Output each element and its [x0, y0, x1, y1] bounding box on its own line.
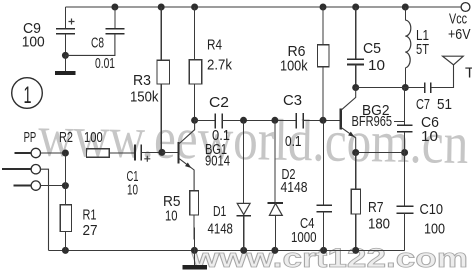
- svg-text:4148: 4148: [281, 179, 308, 196]
- node rail D1: [240, 247, 247, 254]
- diode D2: [268, 120, 284, 250]
- label R2: [59, 129, 73, 146]
- svg-text:150k: 150k: [130, 89, 159, 106]
- label C3: [283, 92, 302, 109]
- svg-text:0.1: 0.1: [285, 133, 302, 150]
- input terminal 3: [14, 181, 66, 190]
- node rail R7: [352, 247, 359, 254]
- svg-text:100k: 100k: [280, 58, 308, 75]
- label 4148 (D1): [208, 220, 233, 237]
- svg-text:R4: R4: [207, 36, 222, 53]
- node circled 1: [12, 78, 43, 109]
- label 27: [83, 222, 98, 239]
- svg-text:9014: 9014: [205, 153, 230, 170]
- label PP: [24, 129, 37, 146]
- svg-text:100: 100: [22, 34, 45, 51]
- svg-text:PP: PP: [24, 129, 37, 146]
- label C5: [363, 40, 381, 57]
- label 51: [437, 96, 452, 113]
- label 2.7k: [207, 57, 232, 74]
- node input1/R2: [62, 150, 69, 157]
- label 10 (C6): [421, 128, 438, 145]
- resistor R5: [190, 191, 199, 251]
- resistor R2: [86, 149, 135, 158]
- svg-text:R7: R7: [368, 199, 384, 216]
- label 1000 (C4): [291, 229, 317, 246]
- label 10 (C5): [368, 57, 385, 74]
- node rail R5/ground: [191, 247, 198, 254]
- label 10 (R5): [165, 208, 178, 225]
- capacitor C10: [396, 153, 413, 251]
- label R5: [163, 193, 181, 210]
- capacitor C4: [317, 120, 333, 250]
- label R3: [133, 72, 151, 89]
- svg-text:BFR965: BFR965: [352, 113, 393, 130]
- svg-text:27: 27: [83, 222, 98, 239]
- svg-text:C7: C7: [416, 96, 430, 113]
- label 100k: [280, 58, 308, 75]
- svg-text:0.01: 0.01: [95, 55, 115, 72]
- svg-text:4148: 4148: [208, 220, 233, 237]
- wire to BG1 base: [162, 151, 179, 153]
- resistor R3: [157, 4, 170, 153]
- node R3/C1/BG1 base: [158, 149, 165, 156]
- svg-text:1: 1: [24, 82, 32, 109]
- node BG2 emitter: [352, 149, 359, 156]
- transistor BG2: [341, 88, 356, 153]
- label C7: [416, 96, 430, 113]
- capacitor C5: [347, 4, 364, 88]
- wire node to C2: [195, 119, 216, 121]
- transistor BG1: [179, 120, 195, 190]
- label BG2: [362, 102, 390, 119]
- resistor R4: [189, 4, 202, 121]
- label C8: [91, 35, 104, 52]
- node R4/C2/BG1 collector: [191, 117, 198, 124]
- label 150k: [130, 89, 159, 106]
- label 0.1 (C2): [212, 127, 230, 144]
- node rail C4: [320, 247, 327, 254]
- label D2: [282, 166, 296, 183]
- label 4148 (D2): [281, 179, 308, 196]
- svg-text:T: T: [465, 64, 472, 81]
- label 180: [368, 216, 390, 233]
- label C4: [300, 215, 315, 232]
- input terminal 1: [15, 148, 66, 157]
- svg-text:R1: R1: [83, 207, 97, 224]
- node R6/C4/BG2 base: [320, 117, 327, 124]
- wire C9 drop from rail: [64, 7, 66, 29]
- label 100 (R2): [84, 129, 103, 146]
- svg-text:R2: R2: [59, 129, 73, 146]
- node D1 top: [240, 117, 247, 124]
- svg-text:10: 10: [368, 57, 385, 74]
- label R7: [368, 199, 384, 216]
- svg-text:R3: R3: [133, 72, 151, 89]
- wire to C7: [405, 87, 424, 89]
- label 5T: [416, 41, 429, 58]
- svg-text:180: 180: [368, 216, 390, 233]
- diode D1: [236, 120, 251, 250]
- label 100 (C10): [424, 221, 445, 238]
- ground (bottom centre): [182, 250, 207, 267]
- label 0.01: [95, 55, 115, 72]
- label C10: [420, 201, 444, 218]
- capacitor C2: [215, 113, 222, 128]
- label C1: [127, 168, 139, 185]
- svg-text:10: 10: [421, 128, 438, 145]
- svg-text:5T: 5T: [416, 41, 429, 58]
- node rail R1: [62, 247, 69, 254]
- label 100 (C9): [22, 34, 45, 51]
- node junction C9/C8/ground: [62, 52, 69, 59]
- svg-text:100: 100: [84, 129, 103, 146]
- wire C2 to C3: [222, 119, 296, 121]
- wire emitter to C10 node: [356, 152, 405, 154]
- ground (top left): [55, 55, 76, 73]
- power Vcc terminal: [448, 3, 471, 43]
- svg-text:C2: C2: [209, 94, 229, 111]
- node rail D2: [271, 247, 278, 254]
- capacitor C3: [296, 113, 303, 129]
- label 10 (C1): [127, 182, 138, 199]
- node C6 bottom / C10 top: [401, 149, 408, 156]
- node L1 bottom / C6 top / C7: [402, 84, 409, 91]
- svg-text:C3: C3: [283, 92, 302, 109]
- label D1: [213, 203, 226, 220]
- capacitor C7: [425, 65, 454, 93]
- label 0.1 (C3): [285, 133, 302, 150]
- svg-text:www.crt122.com: www.crt122.com: [191, 243, 468, 272]
- watermark www.eeworld.com.cn: [38, 103, 469, 176]
- node BG2 collector / C5 bottom: [352, 84, 359, 91]
- inductor L1: [402, 4, 411, 88]
- wire top supply rail: [65, 6, 461, 8]
- leader dash after BFR965: [394, 121, 405, 123]
- svg-text:C5: C5: [363, 40, 381, 57]
- svg-text:C8: C8: [91, 35, 104, 52]
- antenna T: [443, 56, 472, 81]
- resistor R6: [318, 4, 330, 121]
- wire bottom ground rail: [49, 249, 405, 251]
- resistor R1: [60, 153, 71, 250]
- label R6: [288, 43, 306, 60]
- resistor R7: [351, 153, 360, 251]
- input terminal 2: [2, 165, 49, 251]
- node input3 join: [62, 182, 69, 189]
- svg-text:51: 51: [437, 96, 452, 113]
- label L1: [416, 27, 429, 44]
- capacitor C1: [135, 144, 162, 161]
- wire C3 to BG2 base: [303, 119, 340, 121]
- watermark www.crt122.com: [191, 243, 468, 272]
- label BFR965: [352, 113, 393, 130]
- wire collector rail y87: [356, 87, 406, 89]
- svg-text:10: 10: [165, 208, 178, 225]
- label C2: [209, 94, 229, 111]
- svg-text:D1: D1: [213, 203, 226, 220]
- label C6: [421, 114, 439, 131]
- label 9014: [205, 153, 230, 170]
- svg-text:C10: C10: [420, 201, 444, 218]
- label R4: [207, 36, 222, 53]
- svg-text:100: 100: [424, 221, 445, 238]
- capacitor C9: [56, 19, 75, 56]
- capacitor C6: [397, 88, 413, 153]
- label C9: [23, 20, 41, 37]
- node D2 top: [271, 117, 278, 124]
- label BG1: [205, 141, 227, 158]
- svg-text:+6V: +6V: [448, 26, 471, 43]
- svg-text:1000: 1000: [291, 229, 317, 246]
- svg-text:10: 10: [127, 182, 138, 199]
- svg-text:2.7k: 2.7k: [207, 57, 232, 74]
- label R1: [83, 207, 97, 224]
- capacitor C8: [65, 4, 124, 56]
